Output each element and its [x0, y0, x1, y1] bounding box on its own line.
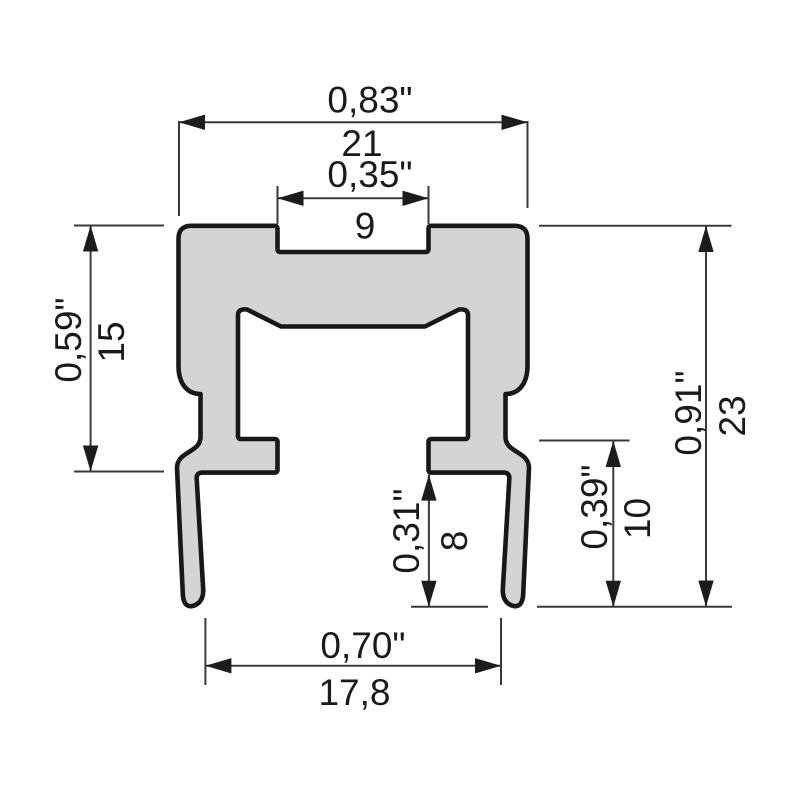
svg-text:15: 15 [91, 321, 132, 362]
svg-text:9: 9 [355, 206, 376, 247]
svg-text:0,59": 0,59" [48, 297, 89, 382]
svg-text:8: 8 [434, 531, 475, 552]
svg-text:0,91": 0,91" [668, 370, 709, 455]
svg-text:0,31": 0,31" [386, 488, 427, 573]
svg-text:0,70": 0,70" [320, 625, 405, 666]
svg-text:0,35": 0,35" [327, 154, 412, 195]
svg-text:0,83": 0,83" [327, 80, 412, 121]
svg-text:17,8: 17,8 [318, 672, 390, 713]
svg-text:10: 10 [617, 498, 658, 539]
svg-text:23: 23 [712, 395, 753, 436]
svg-text:0,39": 0,39" [574, 464, 615, 549]
